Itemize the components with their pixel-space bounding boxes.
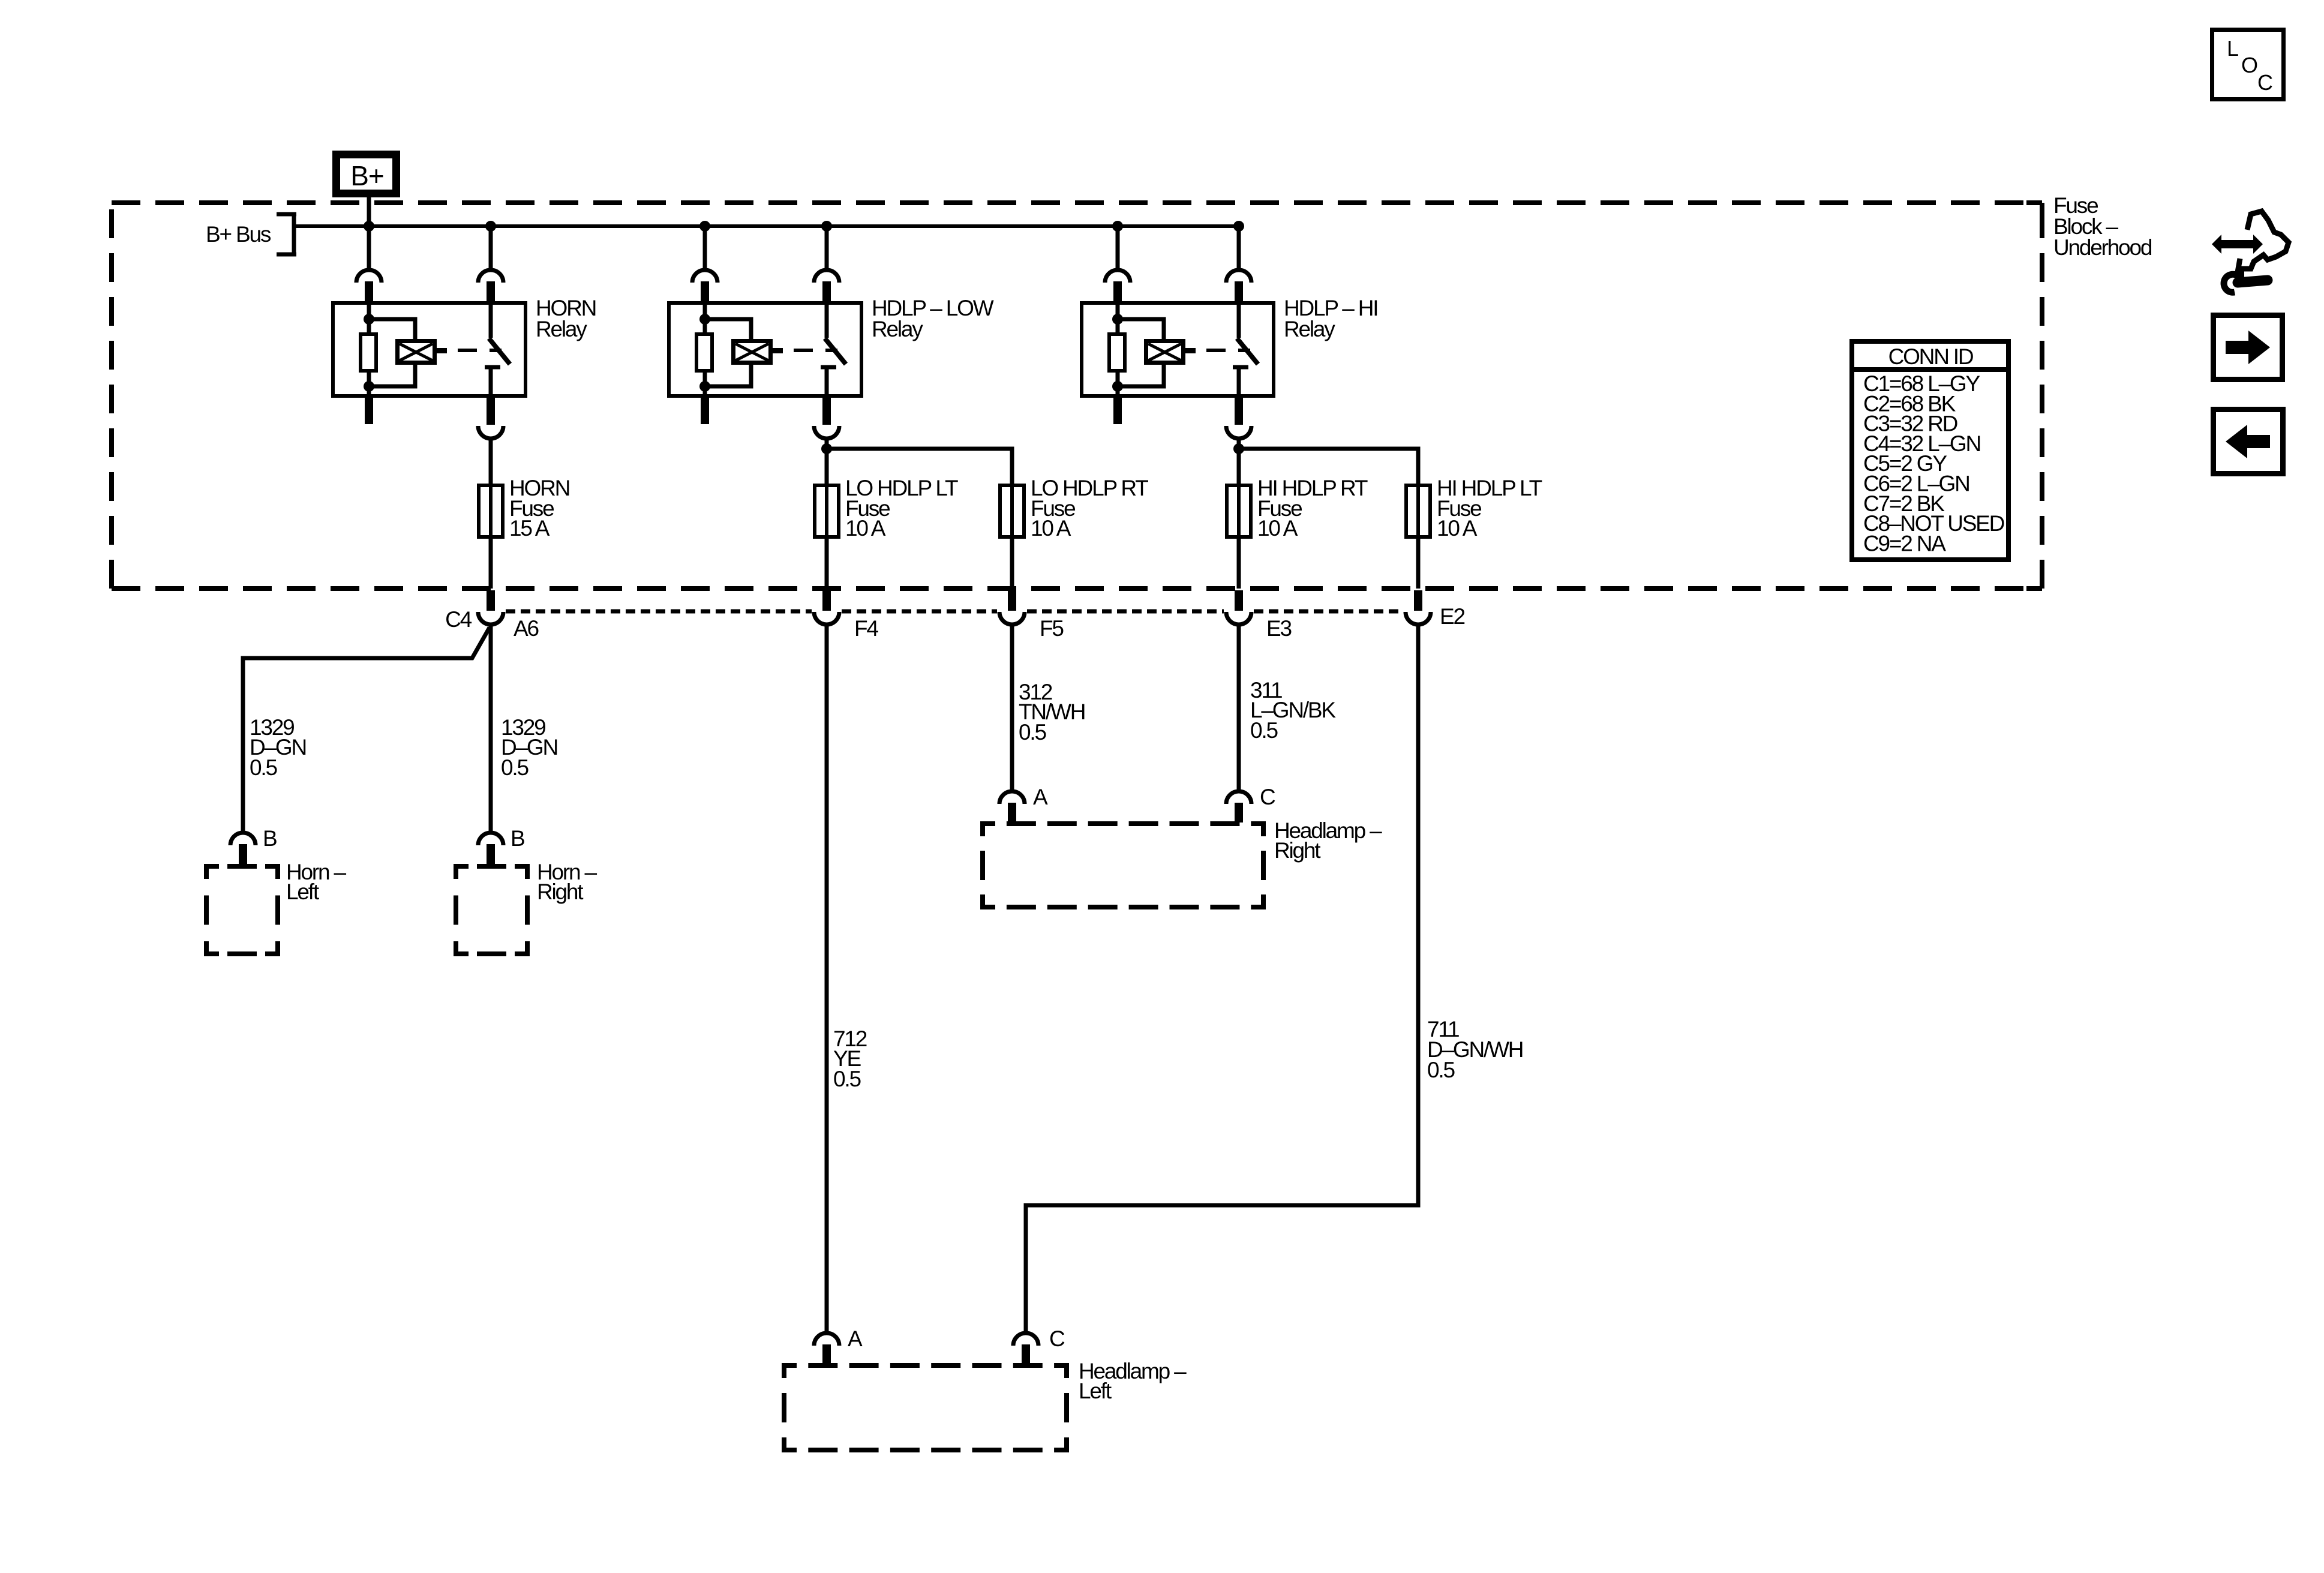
wire: coil to bottom junction [369, 365, 415, 386]
svg-text:CONN ID: CONN ID [1888, 344, 1973, 369]
component: Headlamp - Right (dashed) [980, 821, 1266, 826]
svg-text:F4: F4 [854, 616, 878, 641]
svg-text:Relay: Relay [872, 317, 923, 341]
pin: switch leg below relay box [487, 396, 495, 425]
fuse HI HDLP LT Fuse 10 A [1406, 485, 1430, 537]
connector cavity pin at x=2065 [1235, 590, 1243, 611]
wire: coil to bottom junction [1118, 365, 1164, 386]
node: coil bottom junction [699, 381, 710, 392]
dashed actuation link [794, 349, 837, 352]
svg-text:B: B [511, 826, 524, 851]
dashed actuation link [1206, 349, 1250, 352]
wire: F4 to Headlamp-Left A (712 YE) [825, 625, 829, 1332]
resistor (relay HDLP &#8211; HI suppression) [1109, 334, 1125, 371]
CONN ID table [1852, 341, 2008, 560]
component: Horn - Left (dashed) [204, 864, 280, 869]
svg-text:C: C [2257, 70, 2273, 95]
svg-text:E2: E2 [1440, 604, 1464, 629]
wire: F5 to Headlamp-Right A (312 TN/WH) [1010, 625, 1014, 790]
svg-text:Right: Right [537, 879, 584, 904]
label: Horn - Right [537, 860, 597, 904]
connector: HDLP &#8211; LOW relay coil pin (fuse block cavity) [692, 270, 717, 283]
pin: switch leg below relay box [822, 396, 831, 425]
connector cavity pin at x=1378 [822, 590, 831, 611]
component: Horn - Right (dashed) [454, 864, 530, 869]
svg-text:15 A: 15 A [509, 516, 550, 541]
stub: coil actuator [1185, 348, 1196, 353]
svg-text:Underhood: Underhood [2053, 235, 2152, 260]
B+ Bus bracket and label [206, 214, 296, 254]
svg-text:10 A: 10 A [1031, 516, 1071, 541]
svg-text:Right: Right [1274, 838, 1321, 863]
svg-text:Left: Left [286, 879, 320, 904]
svg-text:C: C [1260, 785, 1275, 809]
pin: coil leg below relay box [365, 396, 373, 424]
connector: HDLP &#8211; HI relay coil pin (fuse block cavity) [1105, 270, 1130, 283]
wire: top junction to coil [369, 319, 415, 340]
relay coil winding symbol [398, 341, 435, 363]
pin: coil leg below relay box [1113, 396, 1122, 424]
B+ power feed box [337, 155, 397, 194]
svg-text:C: C [1049, 1326, 1065, 1351]
connector cavity pin at x=2364 [1414, 590, 1422, 611]
svg-text:C9=2 NA: C9=2 NA [1863, 531, 1946, 556]
dotted connector boundary line [506, 610, 812, 614]
wire: resistor to bottom junction [1116, 373, 1120, 397]
label: Headlamp - Right [1274, 818, 1382, 863]
connector cavity pin at x=1687 [1008, 590, 1016, 611]
underhood service icon (car outline, double arrow, wrench) [2212, 211, 2289, 292]
wire label 712 YE 0.5 [833, 1026, 867, 1091]
svg-text:C4: C4 [445, 607, 472, 632]
stub: coil actuator [437, 348, 447, 353]
node: bus junction x=1378 [821, 221, 832, 232]
relay coil winding symbol [1146, 341, 1184, 363]
wire: bus drop to HORN relay coil connector [367, 226, 371, 270]
svg-text:0.5: 0.5 [501, 755, 529, 780]
wire: HDLP-LOW relay output down (LO HDLP LT) [825, 439, 829, 589]
connector terminal B [230, 833, 256, 845]
svg-text:B: B [263, 826, 277, 851]
connector terminal C [1013, 1333, 1038, 1346]
connector: HDLP &#8211; LOW relay switch pin (fuse block cavity) [814, 270, 839, 283]
node: coil bottom junction [1112, 381, 1123, 392]
wire: bus drop to HDLP &#8211; HI relay switch connector [1237, 226, 1241, 270]
node: bus junction x=2065 [1233, 221, 1244, 232]
label: Fuse Block - Underhood [2053, 193, 2152, 260]
svg-text:0.5: 0.5 [1427, 1058, 1455, 1082]
wire: bus drop to HORN relay switch connector [489, 226, 493, 270]
connector cavity pin at x=818 [487, 590, 495, 611]
wire: coil leg inside relay [367, 303, 371, 334]
switch: relay HDLP &#8211; LOW contact [825, 303, 829, 338]
svg-text:A: A [848, 1326, 863, 1351]
wire: branch to LO HDLP RT fuse [827, 449, 1012, 589]
component: Headlamp - Left (dashed) [782, 1363, 1069, 1368]
svg-text:10 A: 10 A [1257, 516, 1298, 541]
svg-text:B+ Bus: B+ Bus [206, 222, 271, 247]
label: Horn - Left [286, 860, 346, 904]
label: Headlamp - Left [1079, 1359, 1187, 1403]
connector terminal B [478, 833, 503, 845]
node: coil top junction [699, 314, 710, 325]
node: bus junction x=818 [485, 221, 496, 232]
wire: E3 to Headlamp-Right C (311 L-GN/BK) [1237, 625, 1241, 790]
connector: HDLP &#8211; HI relay switch pin (fuse block cavity) [1226, 270, 1251, 283]
fuse LO HDLP RT Fuse 10 A [1000, 485, 1024, 537]
relay HDLP &#8211; LOW Relay outline [669, 303, 861, 396]
wire: B+ to bus [367, 197, 371, 226]
pin: switch leg below relay box [1235, 396, 1243, 425]
relay HORN Relay outline [333, 303, 526, 396]
resistor (relay HDLP &#8211; LOW suppression) [696, 334, 712, 371]
svg-text:0.5: 0.5 [250, 755, 277, 780]
wire: bus drop to HDLP &#8211; HI relay coil connector [1116, 226, 1120, 270]
svg-text:Relay: Relay [536, 317, 587, 341]
wire: resistor to bottom junction [367, 373, 371, 397]
wire label 1329 D-GN 0.5 (left) [250, 715, 306, 780]
connector: HORN relay coil pin (fuse block cavity) [356, 270, 382, 283]
svg-text:Left: Left [1079, 1379, 1112, 1403]
svg-text:0.5: 0.5 [1019, 720, 1046, 745]
wire: B+ bus [294, 224, 1239, 228]
pin: coil leg below relay box [701, 396, 709, 424]
svg-text:L: L [2227, 36, 2239, 61]
node: bus junction x=615 [364, 221, 374, 232]
svg-text:10 A: 10 A [845, 516, 886, 541]
wire: HDLP-HI relay output down (HI HDLP RT) [1237, 439, 1241, 589]
wire label 311 L-GN/BK 0.5 [1250, 678, 1336, 743]
svg-text:0.5: 0.5 [1250, 718, 1278, 743]
connector: switch output (fuse block cavity) [478, 426, 503, 439]
wire: HORN relay output to HORN fuse [489, 439, 493, 589]
wire: bus drop to HDLP &#8211; LOW relay coil connector [703, 226, 707, 270]
wire: coil leg inside relay [1116, 303, 1120, 334]
wire: resistor to bottom junction [703, 373, 707, 397]
wire: coil leg inside relay [703, 303, 707, 334]
wire: top junction to coil [705, 319, 751, 340]
node: HI headlamp branch junction [1233, 443, 1244, 454]
wire label 1329 D-GN 0.5 (right) [501, 715, 557, 780]
fuse HI HDLP RT Fuse 10 A [1227, 485, 1251, 537]
connector: HORN relay switch pin (fuse block cavity) [478, 270, 503, 283]
connector: switch output (fuse block cavity) [814, 426, 839, 439]
connector: switch output (fuse block cavity) [1226, 426, 1251, 439]
resistor (relay HORN suppression) [361, 334, 376, 371]
svg-text:F5: F5 [1040, 616, 1064, 641]
wire label 312 TN/WH 0.5 [1019, 680, 1085, 745]
wire: coil to bottom junction [705, 365, 751, 386]
svg-text:10 A: 10 A [1437, 516, 1478, 541]
connector terminal A [999, 791, 1025, 804]
stub: coil actuator [773, 348, 783, 353]
svg-text:0.5: 0.5 [833, 1067, 861, 1091]
node: coil top junction [364, 314, 374, 325]
previous-page arrow box (left arrow) [2214, 410, 2283, 474]
svg-text:A6: A6 [514, 616, 538, 641]
LOC reference box [2212, 30, 2284, 100]
fuse LO HDLP LT Fuse 10 A [815, 485, 839, 537]
node: bus junction x=1863 [1112, 221, 1123, 232]
connector terminal A [814, 1333, 839, 1346]
node: coil bottom junction [364, 381, 374, 392]
wire: bus drop to HDLP &#8211; LOW relay switch connector [825, 226, 829, 270]
fuse block dashed boundary (Fuse Block - Underhood) [112, 203, 2042, 589]
relay HDLP &#8211; HI Relay outline [1082, 303, 1274, 396]
switch: relay HDLP &#8211; HI contact [1237, 303, 1241, 338]
node: LO headlamp branch junction [821, 443, 832, 454]
wire: C4 branch to Horn-Left (1329 D-GN) [243, 628, 490, 831]
next-page arrow box (right arrow) [2214, 316, 2283, 380]
svg-text:Relay: Relay [1284, 317, 1335, 341]
fuse HORN Fuse 15 A [479, 485, 503, 537]
svg-text:A: A [1033, 785, 1048, 809]
wire label 711 D-GN/WH 0.5 [1427, 1017, 1523, 1082]
connector terminal C [1226, 791, 1251, 804]
relay coil winding symbol [734, 341, 771, 363]
wire: branch to HI HDLP LT fuse [1239, 449, 1418, 589]
dashed actuation link [458, 349, 502, 352]
switch: relay HORN contact [489, 303, 493, 338]
svg-text:B+: B+ [350, 160, 384, 191]
svg-text:O: O [2241, 53, 2258, 77]
svg-text:E3: E3 [1266, 616, 1291, 641]
node: coil top junction [1112, 314, 1123, 325]
wire: A6 to Horn-Right (1329 D-GN) [489, 625, 493, 831]
wire: E2 to Headlamp-Left C (711 D-GN/WH) [1026, 625, 1418, 1332]
wire: top junction to coil [1118, 319, 1164, 340]
node: bus junction x=1175 [699, 221, 710, 232]
